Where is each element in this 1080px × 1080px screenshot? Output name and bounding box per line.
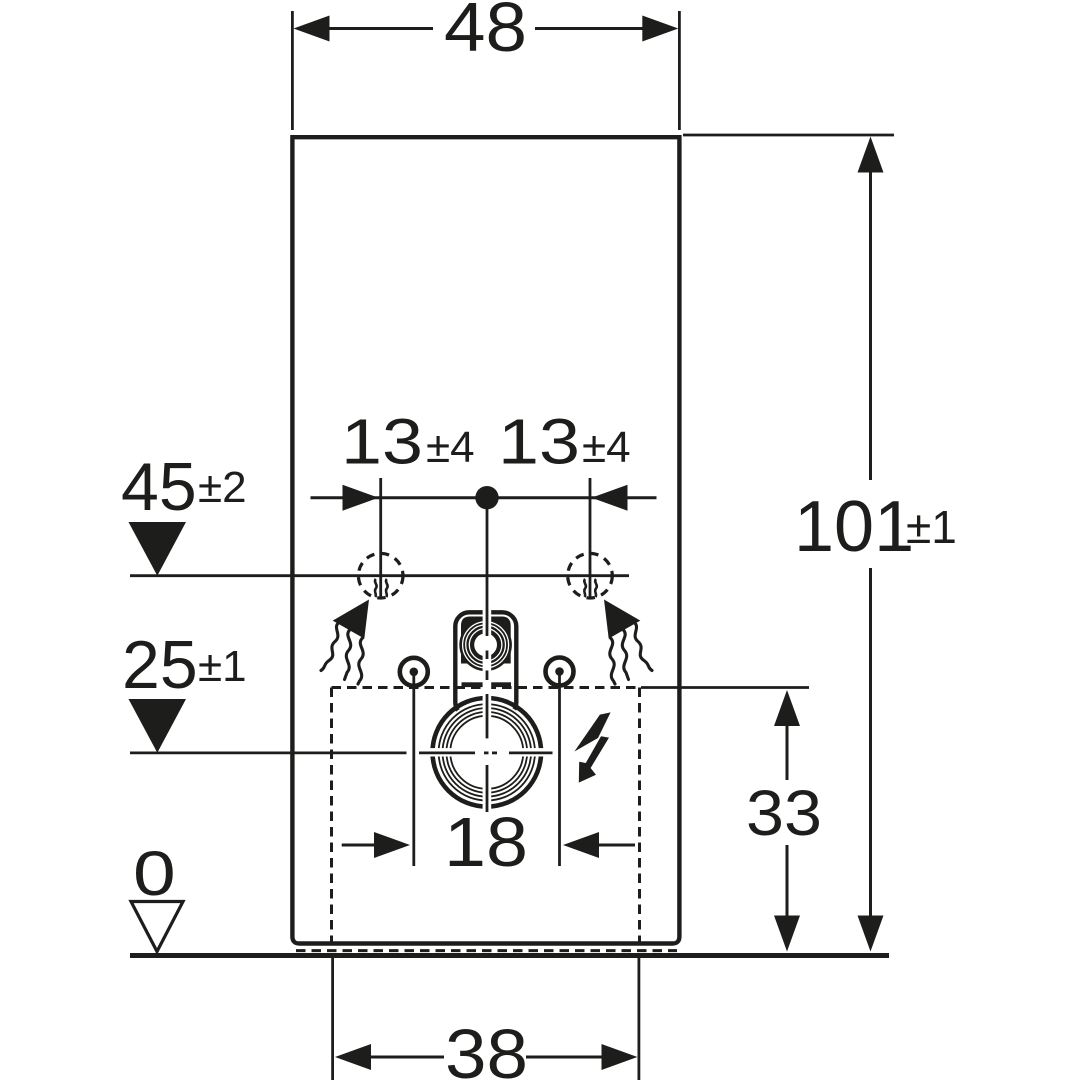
- svg-text:±1: ±1: [198, 642, 247, 691]
- svg-text:38: 38: [445, 1015, 528, 1080]
- svg-text:101: 101: [794, 487, 914, 567]
- svg-text:13: 13: [341, 406, 423, 478]
- svg-text:±2: ±2: [198, 463, 247, 512]
- svg-text:48: 48: [444, 0, 527, 66]
- svg-text:33: 33: [746, 777, 822, 849]
- svg-text:25: 25: [122, 627, 198, 703]
- svg-text:±1: ±1: [906, 501, 957, 553]
- svg-text:18: 18: [444, 803, 528, 881]
- svg-text:±4: ±4: [582, 423, 631, 472]
- svg-text:13: 13: [498, 406, 580, 478]
- svg-text:±4: ±4: [426, 423, 475, 472]
- svg-text:45: 45: [121, 449, 197, 525]
- svg-text:0: 0: [133, 838, 176, 909]
